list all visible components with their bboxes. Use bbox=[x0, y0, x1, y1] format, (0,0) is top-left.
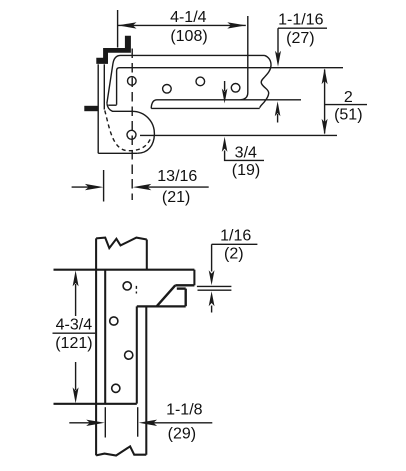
svg-text:(19): (19) bbox=[232, 162, 260, 179]
arm step right edge bbox=[184, 289, 186, 307]
small hidden mark near top hole bbox=[135, 286, 137, 294]
side plate inner face bbox=[103, 64, 105, 109]
svg-text:1-1/16: 1-1/16 bbox=[278, 12, 323, 29]
plate right edge bbox=[136, 306, 138, 403]
knuckle outline bbox=[107, 103, 155, 153]
plate hole 2 bbox=[110, 317, 118, 325]
board left edge bbox=[95, 238, 97, 455]
break line (S-curve) at right end of arm bbox=[260, 55, 271, 107]
arm outer bottom edge bbox=[151, 107, 260, 109]
svg-text:2: 2 bbox=[344, 89, 353, 106]
wing inner face and door top line bbox=[117, 68, 343, 105]
arm tip bottom edge bbox=[175, 284, 194, 286]
plate bottom edge and extension bbox=[54, 403, 137, 405]
svg-text:13/16: 13/16 bbox=[157, 168, 197, 185]
svg-text:1-1/8: 1-1/8 bbox=[166, 402, 203, 419]
plate hole 3 bbox=[125, 351, 133, 359]
door bottom line bbox=[151, 100, 301, 109]
door-thickness arrows (3/4 ref) bbox=[224, 81, 226, 91]
dimension 1-1/16 (27) leader and arrow bbox=[278, 27, 327, 29]
dimension 2 (51) bbox=[324, 70, 326, 134]
dimension 1-1/8 (29) bbox=[104, 407, 106, 437]
hidden knuckle arc (dashed) bbox=[105, 111, 151, 151]
arm right edge bbox=[193, 270, 195, 286]
dimension 13/16 (21) bbox=[103, 170, 105, 202]
arm offset diagonal bbox=[157, 285, 175, 306]
screw hole 2 bbox=[163, 85, 172, 94]
screw hole 1 bbox=[128, 77, 137, 86]
pin centerline (dashed) bbox=[131, 49, 133, 201]
frame section (thick black step) bbox=[96, 36, 131, 64]
svg-text:(27): (27) bbox=[286, 30, 314, 47]
svg-text:(2): (2) bbox=[224, 246, 244, 263]
plate bottom edge bbox=[98, 152, 137, 154]
dimension 4-3/4 (121) bbox=[75, 284, 77, 316]
plate hole 4 bbox=[112, 384, 120, 392]
dimension 1/16 (2) bbox=[212, 243, 258, 245]
door right end / extension line of 4-1/4 bbox=[241, 16, 248, 100]
plate and arm top edge bbox=[54, 269, 195, 271]
board right edge lower bbox=[145, 307, 147, 454]
svg-text:4-3/4: 4-3/4 bbox=[56, 317, 93, 334]
screw hole 4 bbox=[231, 84, 240, 93]
side plate outer face bbox=[97, 64, 99, 153]
board right edge upper bbox=[146, 240, 148, 270]
svg-text:(21): (21) bbox=[162, 189, 190, 206]
hinge wing outer edge and arm top edge bbox=[107, 55, 265, 103]
wing bottom edge bbox=[108, 104, 116, 106]
svg-text:(51): (51) bbox=[334, 107, 362, 124]
plate hole 1 bbox=[123, 282, 131, 290]
svg-text:(108): (108) bbox=[170, 28, 207, 45]
dimension 4-1/4 (108) bbox=[117, 10, 119, 48]
screw hole 3 bbox=[196, 77, 205, 86]
dimension 3/4 (19) arrow and leader bbox=[225, 151, 264, 161]
board bottom break bbox=[96, 446, 146, 455]
pin-height line bbox=[140, 134, 337, 136]
svg-text:(29): (29) bbox=[168, 426, 196, 443]
pin hole bbox=[127, 130, 136, 139]
svg-text:3/4: 3/4 bbox=[235, 145, 257, 162]
board top break bbox=[96, 238, 147, 249]
arm underside bbox=[137, 305, 186, 307]
plate left edge bbox=[104, 270, 106, 404]
svg-text:1/16: 1/16 bbox=[220, 228, 251, 245]
svg-text:(121): (121) bbox=[55, 335, 92, 352]
door edge section (thick black bar) bbox=[84, 106, 98, 111]
svg-text:4-1/4: 4-1/4 bbox=[170, 9, 207, 26]
arm step top edge bbox=[177, 287, 186, 289]
